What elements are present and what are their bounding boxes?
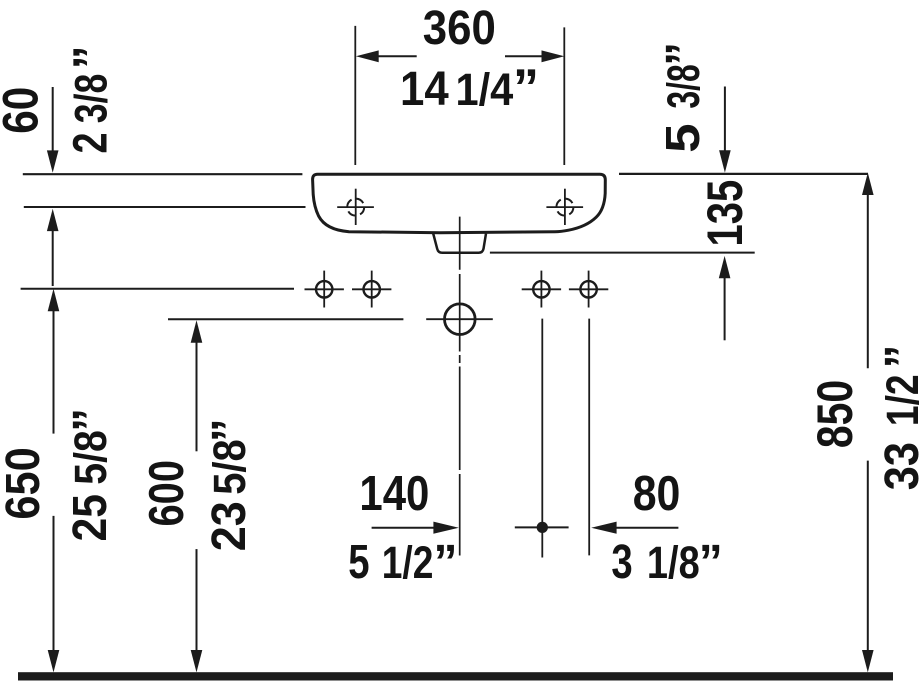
- wall line right upper: [619, 173, 868, 175]
- svg-text:1/2: 1/2: [382, 537, 434, 588]
- svg-text:3/8: 3/8: [658, 64, 709, 108]
- dim 600 line: [196, 342, 198, 451]
- svg-text:60: 60: [0, 87, 48, 134]
- floor: [18, 672, 893, 680]
- dim 5 3/8 arrow: [724, 87, 726, 153]
- text 650 (rotated): [0, 447, 50, 519]
- dim 60 lower arrow: [52, 229, 54, 286]
- text 33 1/2" (rotated): [876, 345, 920, 491]
- wall line left lower: [24, 206, 306, 208]
- level line 600: [168, 318, 403, 320]
- faucet hole left dashed circle: [347, 199, 364, 216]
- dim 360 extension right: [563, 27, 565, 165]
- dim dot: [537, 522, 548, 533]
- dim 360 arrow right: [505, 55, 544, 57]
- text 850 (rotated): [807, 380, 863, 448]
- basin outline: [313, 174, 606, 233]
- extension line below hole D: [588, 319, 590, 556]
- svg-text:”: ”: [65, 45, 118, 69]
- svg-text:3/8: 3/8: [66, 74, 117, 124]
- dim 60 upper arrow: [52, 87, 54, 152]
- dim 140 arrow: [372, 527, 435, 529]
- svg-text:33: 33: [876, 442, 920, 490]
- text 60 (rotated): [0, 87, 48, 134]
- dim 360 extension left: [354, 26, 356, 165]
- extension line below hole C: [541, 319, 543, 558]
- svg-text:5: 5: [657, 123, 710, 153]
- mounting hole D: [580, 281, 596, 297]
- svg-text:1/2: 1/2: [877, 374, 920, 426]
- svg-text:”: ”: [657, 42, 710, 66]
- wall line left upper: [23, 173, 303, 175]
- svg-text:5/8: 5/8: [65, 430, 116, 485]
- faucet hole right dashed circle: [556, 199, 573, 216]
- svg-text:3: 3: [611, 536, 632, 589]
- text 2 3/8" (rotated): [65, 45, 118, 153]
- svg-text:2: 2: [65, 133, 118, 154]
- svg-text:”: ”: [513, 59, 539, 117]
- dim 135 lower arrow: [724, 277, 726, 340]
- level line under basin: [490, 252, 755, 254]
- svg-text:850: 850: [807, 380, 863, 448]
- text 5 3/8" (rotated): [657, 42, 710, 153]
- drain sleeve: [433, 234, 486, 253]
- svg-text:650: 650: [0, 447, 50, 519]
- svg-text:”: ”: [876, 345, 920, 369]
- svg-text:14: 14: [400, 63, 449, 116]
- svg-text:”: ”: [434, 536, 458, 589]
- svg-text:140: 140: [359, 467, 429, 521]
- dim 650 line: [53, 310, 55, 434]
- svg-text:25: 25: [64, 494, 117, 542]
- svg-text:23: 23: [203, 501, 256, 551]
- text 25 5/8" (rotated): [64, 408, 117, 542]
- svg-text:”: ”: [64, 408, 117, 432]
- mounting hole B: [364, 281, 380, 297]
- drain centerline vertical: [459, 217, 461, 556]
- svg-text:1/8: 1/8: [647, 537, 700, 588]
- mounting hole C: [533, 281, 549, 297]
- drain circle: [445, 304, 476, 335]
- faucet hole right cross: [546, 206, 583, 208]
- faucet hole left cross: [337, 206, 374, 208]
- text 600 (rotated): [140, 460, 194, 527]
- dim 850 line: [867, 194, 869, 368]
- mounting hole A: [316, 281, 332, 297]
- dim 360 arrow left: [376, 55, 417, 57]
- text 23 5/8" (rotated): [203, 418, 256, 551]
- svg-text:600: 600: [140, 460, 194, 527]
- svg-text:360: 360: [423, 2, 496, 55]
- dim 80 arrow: [615, 527, 678, 529]
- drain cross horizontal: [426, 318, 493, 320]
- svg-text:5: 5: [348, 536, 369, 589]
- svg-text:1/4: 1/4: [456, 64, 514, 115]
- text 135 (rotated): [697, 180, 753, 247]
- level line 650: [21, 288, 294, 290]
- svg-text:5/8: 5/8: [204, 439, 255, 495]
- svg-text:80: 80: [633, 467, 681, 521]
- svg-text:”: ”: [203, 418, 256, 442]
- svg-text:135: 135: [697, 180, 753, 247]
- svg-text:”: ”: [699, 536, 723, 589]
